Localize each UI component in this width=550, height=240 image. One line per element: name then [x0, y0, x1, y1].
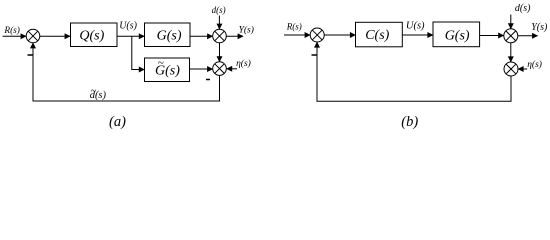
wire summer 2 down to summer 3 (a)	[219, 43, 221, 62]
svg-text:η(s): η(s)	[527, 59, 542, 70]
wire R(s) input to summer 1 (b)	[284, 34, 310, 36]
wire eta(s) into summer 3 (a)	[227, 68, 237, 70]
summing junction 3 (b)	[504, 62, 518, 76]
wire Gtilde to summer 3 (a)	[190, 68, 213, 70]
svg-text:U(s): U(s)	[406, 20, 425, 31]
wire feedback summer 3 to summer 1 (a)	[33, 43, 220, 101]
wire d(s) into summer 2 (b)	[510, 15, 512, 29]
block G(s) (b)	[433, 22, 480, 47]
svg-text:G(s): G(s)	[157, 28, 182, 43]
wire C(s) to G(s) (b)	[402, 34, 433, 36]
svg-text:R(s): R(s)	[3, 25, 20, 36]
wire summer 2 down to summer 3 (b)	[510, 43, 512, 62]
wire summer 1 to C(s) (b)	[324, 34, 355, 36]
minus sign at feedback input of summer 1 (b)	[312, 54, 317, 56]
wire branch from U down to Gtilde (a)	[132, 36, 144, 69]
wire summer 2 to Y(s) output (b)	[518, 35, 538, 37]
svg-text:Y(s): Y(s)	[531, 22, 548, 33]
svg-text:Y(s): Y(s)	[239, 25, 254, 36]
wire summer 1 to Q(s) (a)	[40, 35, 70, 37]
svg-text:Q(s): Q(s)	[79, 28, 104, 43]
svg-text:~: ~	[91, 86, 97, 97]
svg-text:G(s): G(s)	[445, 28, 470, 43]
summing junction 3 (a)	[213, 62, 227, 76]
svg-text:U(s): U(s)	[119, 21, 137, 32]
block Gtilde(s)	[145, 57, 190, 82]
minus sign at feedback input of summer 1 (a)	[28, 54, 33, 56]
block Q(s)	[71, 23, 118, 47]
summing junction 1 (a)	[26, 29, 40, 43]
wire feedback summer 3 to summer 1 (b)	[317, 42, 511, 101]
svg-text:C(s): C(s)	[365, 28, 389, 43]
svg-text:η(s): η(s)	[236, 58, 251, 69]
block G(s) (a)	[145, 23, 191, 47]
svg-text:d(s): d(s)	[212, 5, 226, 15]
wire G(s) to summer 2 (b)	[480, 35, 504, 37]
minus sign at Gtilde input of summer 3 (a)	[206, 79, 210, 81]
svg-text:~: ~	[158, 57, 164, 69]
wire summer 2 to Y(s) output (a)	[226, 35, 243, 37]
block C(s)	[356, 22, 403, 47]
summing junction 1 (b)	[310, 28, 324, 42]
wire G(s) to summer 2 (a)	[190, 35, 213, 37]
svg-text:(b): (b)	[401, 114, 418, 130]
wire R(s) input to summer 1 (a)	[3, 35, 27, 37]
summing junction 2 (b)	[504, 29, 518, 43]
wire eta(s) into summer 3 (b)	[518, 68, 527, 70]
svg-text:R(s): R(s)	[286, 22, 302, 32]
svg-text:(a): (a)	[109, 114, 126, 130]
svg-text:d(s): d(s)	[515, 3, 531, 14]
wire Q(s) to G(s) (a)	[117, 35, 144, 37]
wire d(s) into summer 2 (a)	[218, 16, 220, 30]
summing junction 2 (a)	[213, 29, 227, 43]
